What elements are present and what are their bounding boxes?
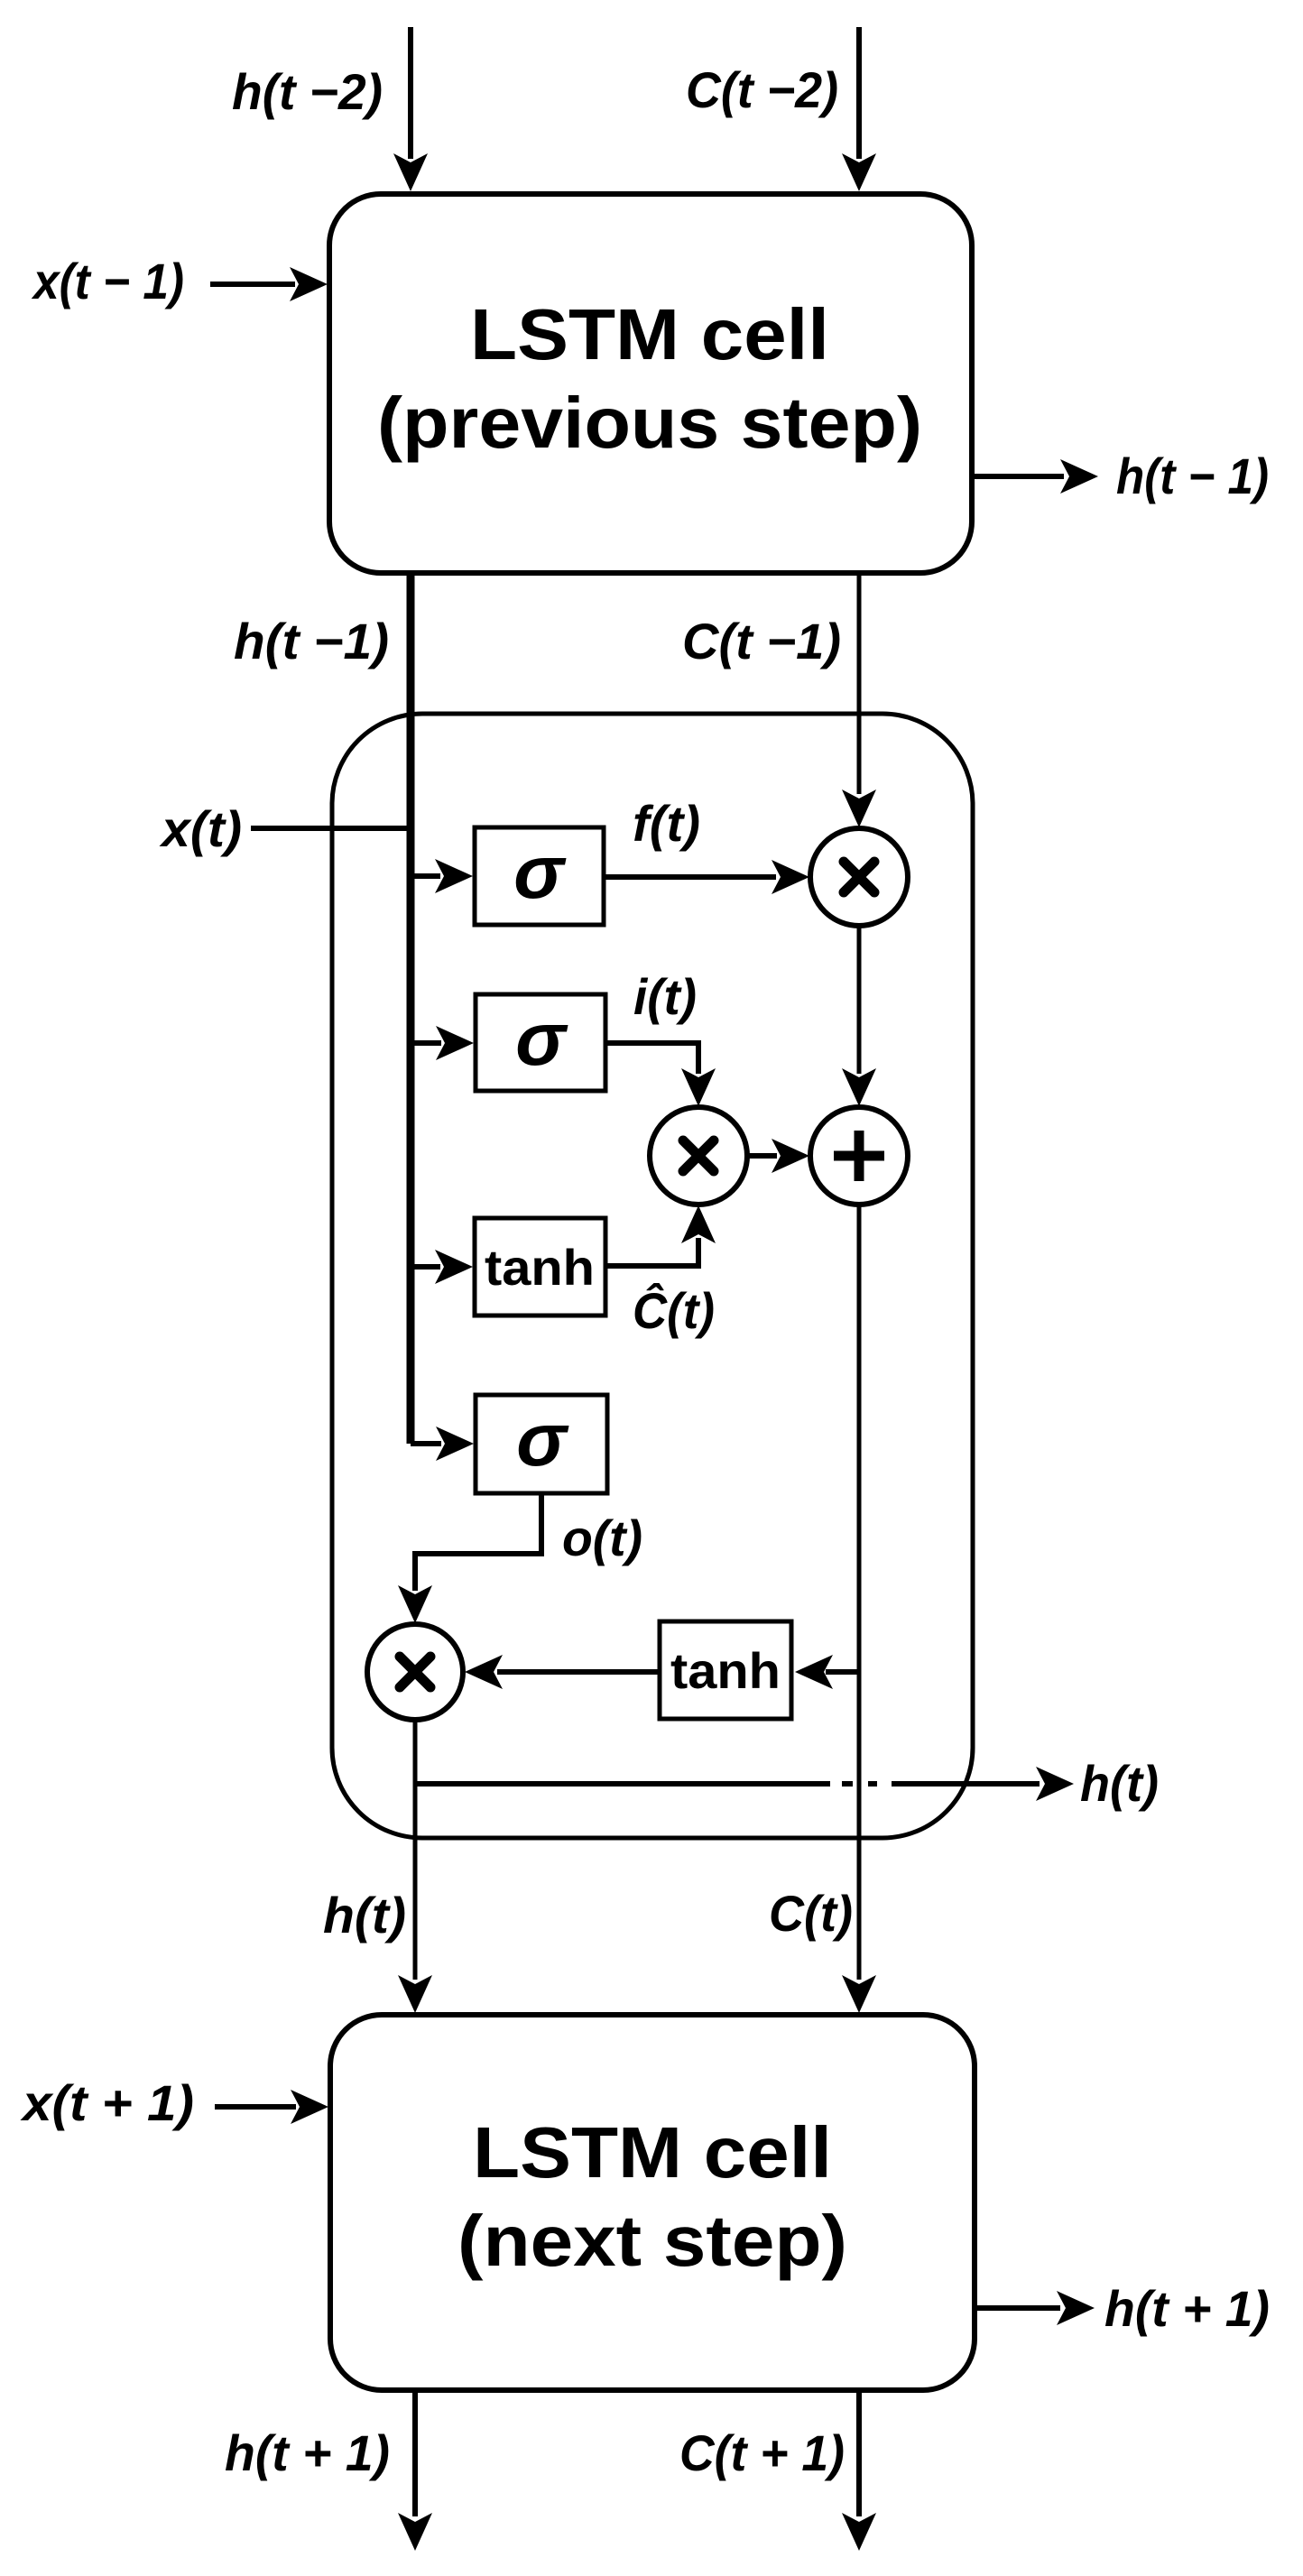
svg-text:h(t − 1): h(t − 1)	[1116, 448, 1269, 504]
op multiply x2 (input gate)	[650, 1107, 747, 1205]
wire C(t-1) column	[842, 572, 876, 827]
wire h column down	[398, 1720, 432, 2013]
wire h(t-1) output	[972, 459, 1098, 494]
svg-text:h(t −2): h(t −2)	[232, 63, 383, 120]
svg-text:LSTM cell: LSTM cell	[470, 294, 829, 374]
op multiply x3 (output)	[367, 1624, 463, 1720]
svg-text:Ĉ(t): Ĉ(t)	[633, 1282, 715, 1339]
svg-text:σ: σ	[513, 829, 567, 914]
wire C column to plus	[842, 925, 876, 1106]
op multiply x1 (forget gate)	[810, 828, 908, 926]
svg-text:tanh: tanh	[485, 1239, 595, 1296]
svg-text:LSTM cell: LSTM cell	[473, 2112, 832, 2193]
wire f(t)	[604, 860, 809, 894]
svg-text:tanh: tanh	[670, 1642, 781, 1699]
wire branch to sigma1	[411, 859, 473, 893]
svg-text:h(t + 1): h(t + 1)	[225, 2424, 390, 2481]
svg-text:h(t): h(t)	[1080, 1755, 1159, 1812]
wire h(t+1) output right	[975, 2291, 1095, 2325]
label LSTM cell (previous step)	[377, 294, 922, 463]
gate sigma3 (output)	[476, 1395, 607, 1493]
svg-text:(next step): (next step)	[457, 2201, 847, 2281]
svg-text:x(t − 1): x(t − 1)	[31, 253, 184, 309]
wire branch to sigma2	[411, 1026, 474, 1060]
wire x(t+1) input	[215, 2090, 328, 2124]
wire x(t-1) input	[210, 267, 328, 301]
wire o(t)	[398, 1493, 541, 1623]
svg-text:h(t): h(t)	[323, 1887, 406, 1944]
wire x2 to plus	[746, 1139, 809, 1173]
svg-text:C(t −1): C(t −1)	[682, 613, 841, 669]
wire C to tanh2	[795, 1655, 859, 1689]
LSTM cell detailed box	[332, 714, 973, 1838]
gate sigma1 (forget)	[475, 827, 604, 925]
svg-text:f(t): f(t)	[633, 795, 700, 852]
wire i(t)	[605, 1043, 716, 1106]
svg-text:C(t −2): C(t −2)	[686, 61, 838, 118]
svg-text:(previous step): (previous step)	[377, 383, 922, 463]
svg-text:σ: σ	[515, 996, 568, 1081]
svg-text:x(t + 1): x(t + 1)	[20, 2074, 194, 2131]
svg-text:σ: σ	[516, 1397, 569, 1482]
wire x(t) input	[251, 826, 411, 831]
svg-text:i(t): i(t)	[633, 968, 697, 1025]
gate tanh2 (cell output)	[660, 1621, 791, 1719]
svg-text:h(t −1): h(t −1)	[234, 613, 389, 669]
wire tanh2 to x3	[465, 1655, 660, 1689]
svg-text:C(t + 1): C(t + 1)	[679, 2424, 845, 2481]
svg-text:C(t): C(t)	[769, 1885, 853, 1942]
svg-text:x(t): x(t)	[159, 800, 242, 857]
gate sigma2 (input)	[476, 994, 605, 1091]
wire h(t-1) thick column	[407, 572, 415, 1444]
wire elbow to sigma3	[411, 1426, 474, 1461]
wire Chat(t)	[605, 1205, 716, 1266]
wire h(t+1) down	[398, 2390, 432, 2551]
LSTM cell (next step) box	[330, 2015, 975, 2390]
gate tanh1 (candidate)	[475, 1218, 605, 1316]
wire h(t) output	[415, 1767, 1074, 1801]
wire C column down	[842, 1204, 876, 2013]
label LSTM cell (next step)	[457, 2112, 847, 2281]
wire branch to tanh1	[411, 1250, 473, 1284]
svg-text:o(t): o(t)	[562, 1510, 642, 1566]
svg-text:h(t + 1): h(t + 1)	[1104, 2280, 1270, 2337]
wire C(t+1) down	[842, 2390, 876, 2551]
wire C(t-2) input	[842, 27, 876, 191]
wire h(t-2) input	[393, 27, 428, 191]
LSTM cell (previous step) box	[329, 194, 972, 573]
op add plus	[810, 1107, 908, 1205]
